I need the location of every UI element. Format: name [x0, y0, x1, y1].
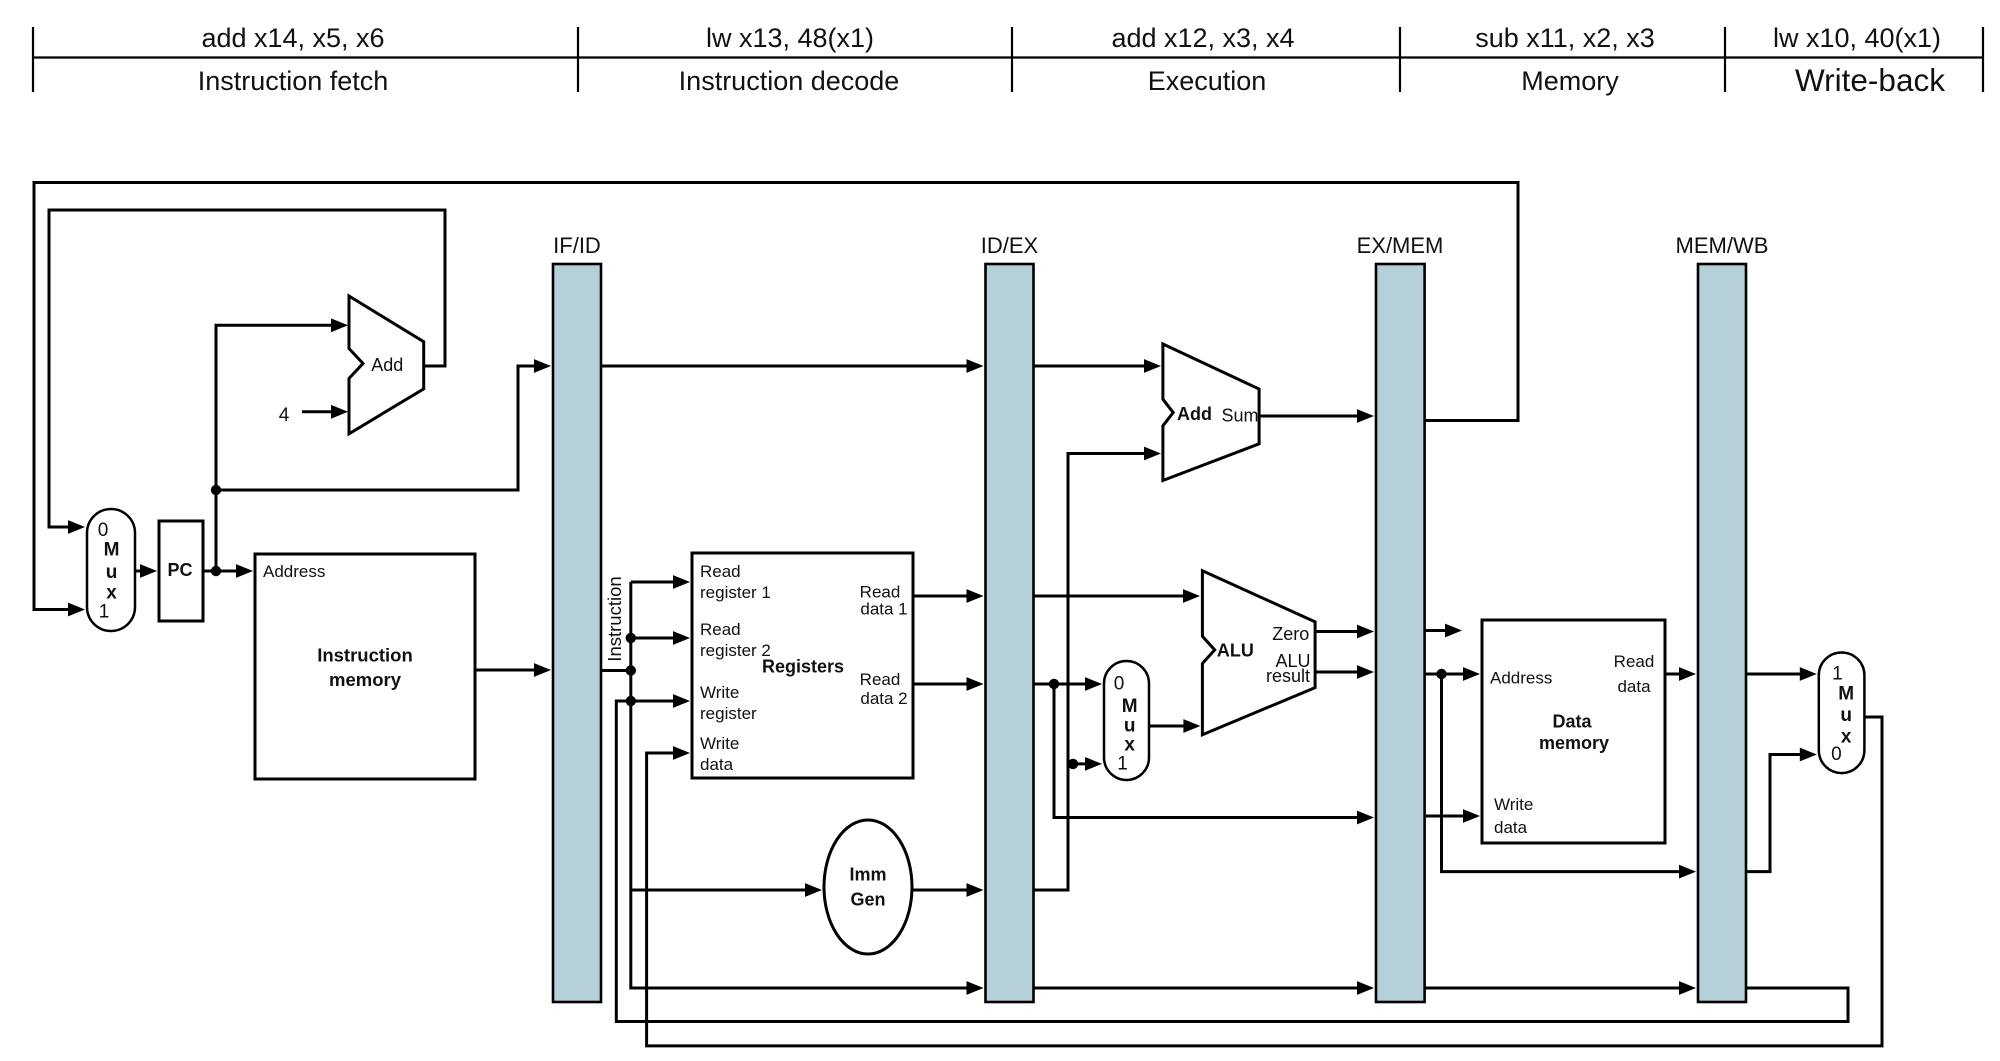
- svg-text:Data: Data: [1552, 712, 1592, 732]
- svg-text:M: M: [1838, 684, 1854, 705]
- svg-text:data: data: [700, 755, 734, 774]
- svg-text:add x14, x5, x6: add x14, x5, x6: [201, 23, 384, 53]
- svg-text:Sum: Sum: [1221, 406, 1258, 426]
- svg-text:Execution: Execution: [1148, 66, 1267, 96]
- svg-text:PC: PC: [167, 560, 192, 580]
- svg-text:data: data: [1494, 818, 1528, 837]
- svg-text:lw x10, 40(x1): lw x10, 40(x1): [1773, 23, 1941, 53]
- svg-text:result: result: [1266, 666, 1310, 686]
- svg-text:x: x: [1841, 727, 1852, 748]
- svg-text:Read: Read: [860, 670, 901, 689]
- svg-text:register 1: register 1: [700, 583, 771, 602]
- svg-text:memory: memory: [329, 669, 402, 690]
- svg-text:data: data: [1617, 677, 1651, 696]
- svg-text:x: x: [1124, 735, 1135, 756]
- svg-text:Address: Address: [263, 562, 325, 581]
- svg-text:Read: Read: [700, 620, 741, 639]
- svg-text:u: u: [106, 562, 118, 583]
- svg-text:Instruction: Instruction: [317, 645, 413, 666]
- svg-text:M: M: [104, 539, 120, 560]
- svg-text:1: 1: [1117, 754, 1128, 775]
- svg-text:data 2: data 2: [860, 689, 907, 708]
- svg-text:Read: Read: [700, 562, 741, 581]
- svg-text:ALU: ALU: [1217, 641, 1254, 661]
- svg-text:add x12, x3, x4: add x12, x3, x4: [1111, 23, 1294, 53]
- svg-text:M: M: [1122, 696, 1138, 717]
- svg-text:0: 0: [1114, 674, 1125, 695]
- svg-text:sub x11, x2, x3: sub x11, x2, x3: [1475, 23, 1655, 53]
- svg-text:Imm: Imm: [849, 865, 886, 885]
- svg-text:ID/EX: ID/EX: [981, 233, 1039, 258]
- svg-text:Instruction decode: Instruction decode: [679, 66, 900, 96]
- svg-text:Gen: Gen: [850, 890, 885, 910]
- svg-text:Write: Write: [700, 683, 739, 702]
- svg-text:4: 4: [279, 405, 290, 426]
- svg-text:Instruction: Instruction: [604, 576, 625, 661]
- svg-text:Write: Write: [1494, 795, 1533, 814]
- svg-text:u: u: [1124, 716, 1136, 737]
- svg-text:data 1: data 1: [860, 600, 907, 619]
- svg-text:1: 1: [99, 602, 110, 623]
- svg-text:memory: memory: [1539, 733, 1609, 753]
- svg-text:register 2: register 2: [700, 641, 771, 660]
- svg-text:Add: Add: [371, 355, 403, 375]
- svg-text:EX/MEM: EX/MEM: [1357, 233, 1444, 258]
- svg-text:0: 0: [98, 520, 109, 541]
- svg-text:Memory: Memory: [1521, 66, 1619, 96]
- svg-text:Instruction fetch: Instruction fetch: [198, 66, 389, 96]
- svg-text:Registers: Registers: [762, 657, 844, 677]
- svg-text:lw x13, 48(x1): lw x13, 48(x1): [706, 23, 874, 53]
- svg-text:x: x: [106, 583, 117, 604]
- svg-text:Zero: Zero: [1272, 624, 1309, 644]
- svg-text:MEM/WB: MEM/WB: [1676, 233, 1769, 258]
- svg-text:Address: Address: [1490, 669, 1552, 688]
- svg-text:register: register: [700, 704, 757, 723]
- svg-text:1: 1: [1832, 664, 1843, 685]
- svg-text:Write: Write: [700, 734, 739, 753]
- svg-text:Read: Read: [1614, 652, 1655, 671]
- svg-text:IF/ID: IF/ID: [553, 233, 601, 258]
- svg-text:u: u: [1840, 705, 1852, 726]
- svg-text:0: 0: [1831, 744, 1842, 765]
- svg-text:Add: Add: [1177, 404, 1212, 424]
- svg-text:Write-back: Write-back: [1795, 62, 1945, 98]
